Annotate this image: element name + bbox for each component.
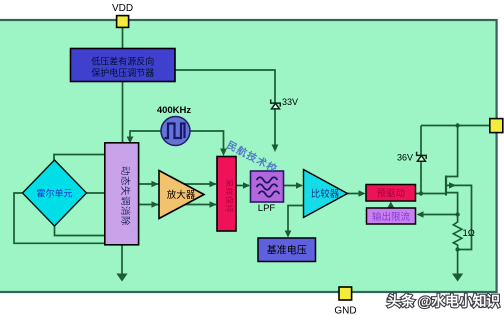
wire oscillator to offset-cancel (left branch) [130, 131, 162, 140]
arrows amp inputs [152, 181, 159, 187]
svg-text:放大器: 放大器 [167, 189, 196, 201]
wire output pin rail [421, 125, 490, 127]
wire reference to comparator lower input [288, 206, 303, 235]
transistor Q1 power MOSFET [446, 126, 472, 250]
svg-text:预驱动: 预驱动 [377, 189, 406, 200]
svg-text:低压差有源反向: 低压差有源反向 [91, 56, 154, 67]
svg-text:GND: GND [334, 306, 356, 315]
node gate/zener junction [419, 191, 423, 195]
wire demod to LPF [236, 185, 249, 187]
wire comparator to predriver [348, 193, 365, 195]
wire offset-cancel to amplifier to demod (upper) [139, 183, 216, 185]
source stub [446, 193, 458, 223]
reference voltage block [258, 238, 316, 262]
wire predriver to gate [416, 193, 446, 195]
chopper demodulator block [217, 157, 236, 232]
svg-text:输出限流: 输出限流 [372, 211, 411, 223]
pin GND [334, 287, 356, 315]
node resistor bottom junction [455, 247, 459, 251]
wire regulator to offset-cancel block [122, 82, 124, 144]
wire current-limit to predriver [390, 204, 392, 209]
low pass filter LPF [251, 171, 284, 214]
regulator U1 low-dropout reverse-protection voltage regulator [71, 49, 176, 82]
wire resistor to ground [457, 247, 459, 274]
hall element [23, 160, 87, 226]
wire offset-cancel to ground [121, 245, 123, 274]
wire sense to current-limit [418, 214, 458, 216]
wire hall top terminal [54, 155, 105, 163]
comparator A2 [304, 170, 348, 218]
wire 36V zener branch [420, 126, 422, 194]
predriver block [366, 185, 416, 202]
svg-text:400KHz: 400KHz [157, 105, 192, 116]
wire regulator output to 33V zener [175, 70, 275, 148]
node drain junction [455, 123, 459, 127]
svg-text:保护电压调节器: 保护电压调节器 [91, 67, 154, 78]
wire VDD to regulator [122, 27, 124, 49]
pin VDD [112, 3, 133, 28]
svg-text:基准电压: 基准电压 [267, 244, 307, 257]
wire oscillator to chopper demod (right branch) [189, 131, 224, 152]
svg-text:1Ω: 1Ω [463, 228, 475, 239]
output current limit block [367, 208, 416, 224]
svg-text:动态失调消除: 动态失调消除 [119, 166, 131, 226]
zener D2 36V [417, 152, 427, 161]
svg-text:采样保持: 采样保持 [225, 179, 235, 213]
svg-text:LPF: LPF [258, 203, 276, 214]
channel bar [445, 176, 447, 196]
svg-text:比较器: 比较器 [311, 188, 340, 200]
node source junction [455, 212, 459, 216]
drain connection [447, 126, 458, 177]
amplifier A1 [159, 171, 204, 219]
wire LPF to comparator [284, 185, 303, 187]
oscillator 400KHz [157, 105, 192, 146]
svg-text:霍尔单元: 霍尔单元 [36, 188, 72, 199]
arrow into offset-cancel top [127, 137, 134, 144]
ground (right) [452, 274, 463, 282]
dynamic offset cancellation block [105, 143, 139, 245]
body stub [446, 185, 472, 249]
svg-text:33V: 33V [282, 97, 298, 107]
body arrow [449, 182, 457, 188]
arrows demod inputs [210, 181, 217, 187]
wire offset-cancel to amplifier to demod (lower) [139, 204, 216, 206]
wire hall left terminal [14, 193, 105, 243]
svg-text:头条 @水电小知识: 头条 @水电小知识 [387, 293, 500, 309]
arrow down 33V branch [272, 145, 279, 153]
resistor R1 1ohm [453, 222, 462, 247]
pin OUTPUT (right) [490, 119, 503, 133]
wire hall right terminal [86, 192, 105, 194]
svg-text:36V: 36V [397, 153, 413, 163]
ground (left) [116, 274, 127, 282]
zener D1 33V [271, 99, 281, 109]
arrow into chopper demod top [220, 149, 227, 157]
wire hall bottom terminal [55, 226, 106, 236]
svg-text:VDD: VDD [112, 3, 133, 14]
